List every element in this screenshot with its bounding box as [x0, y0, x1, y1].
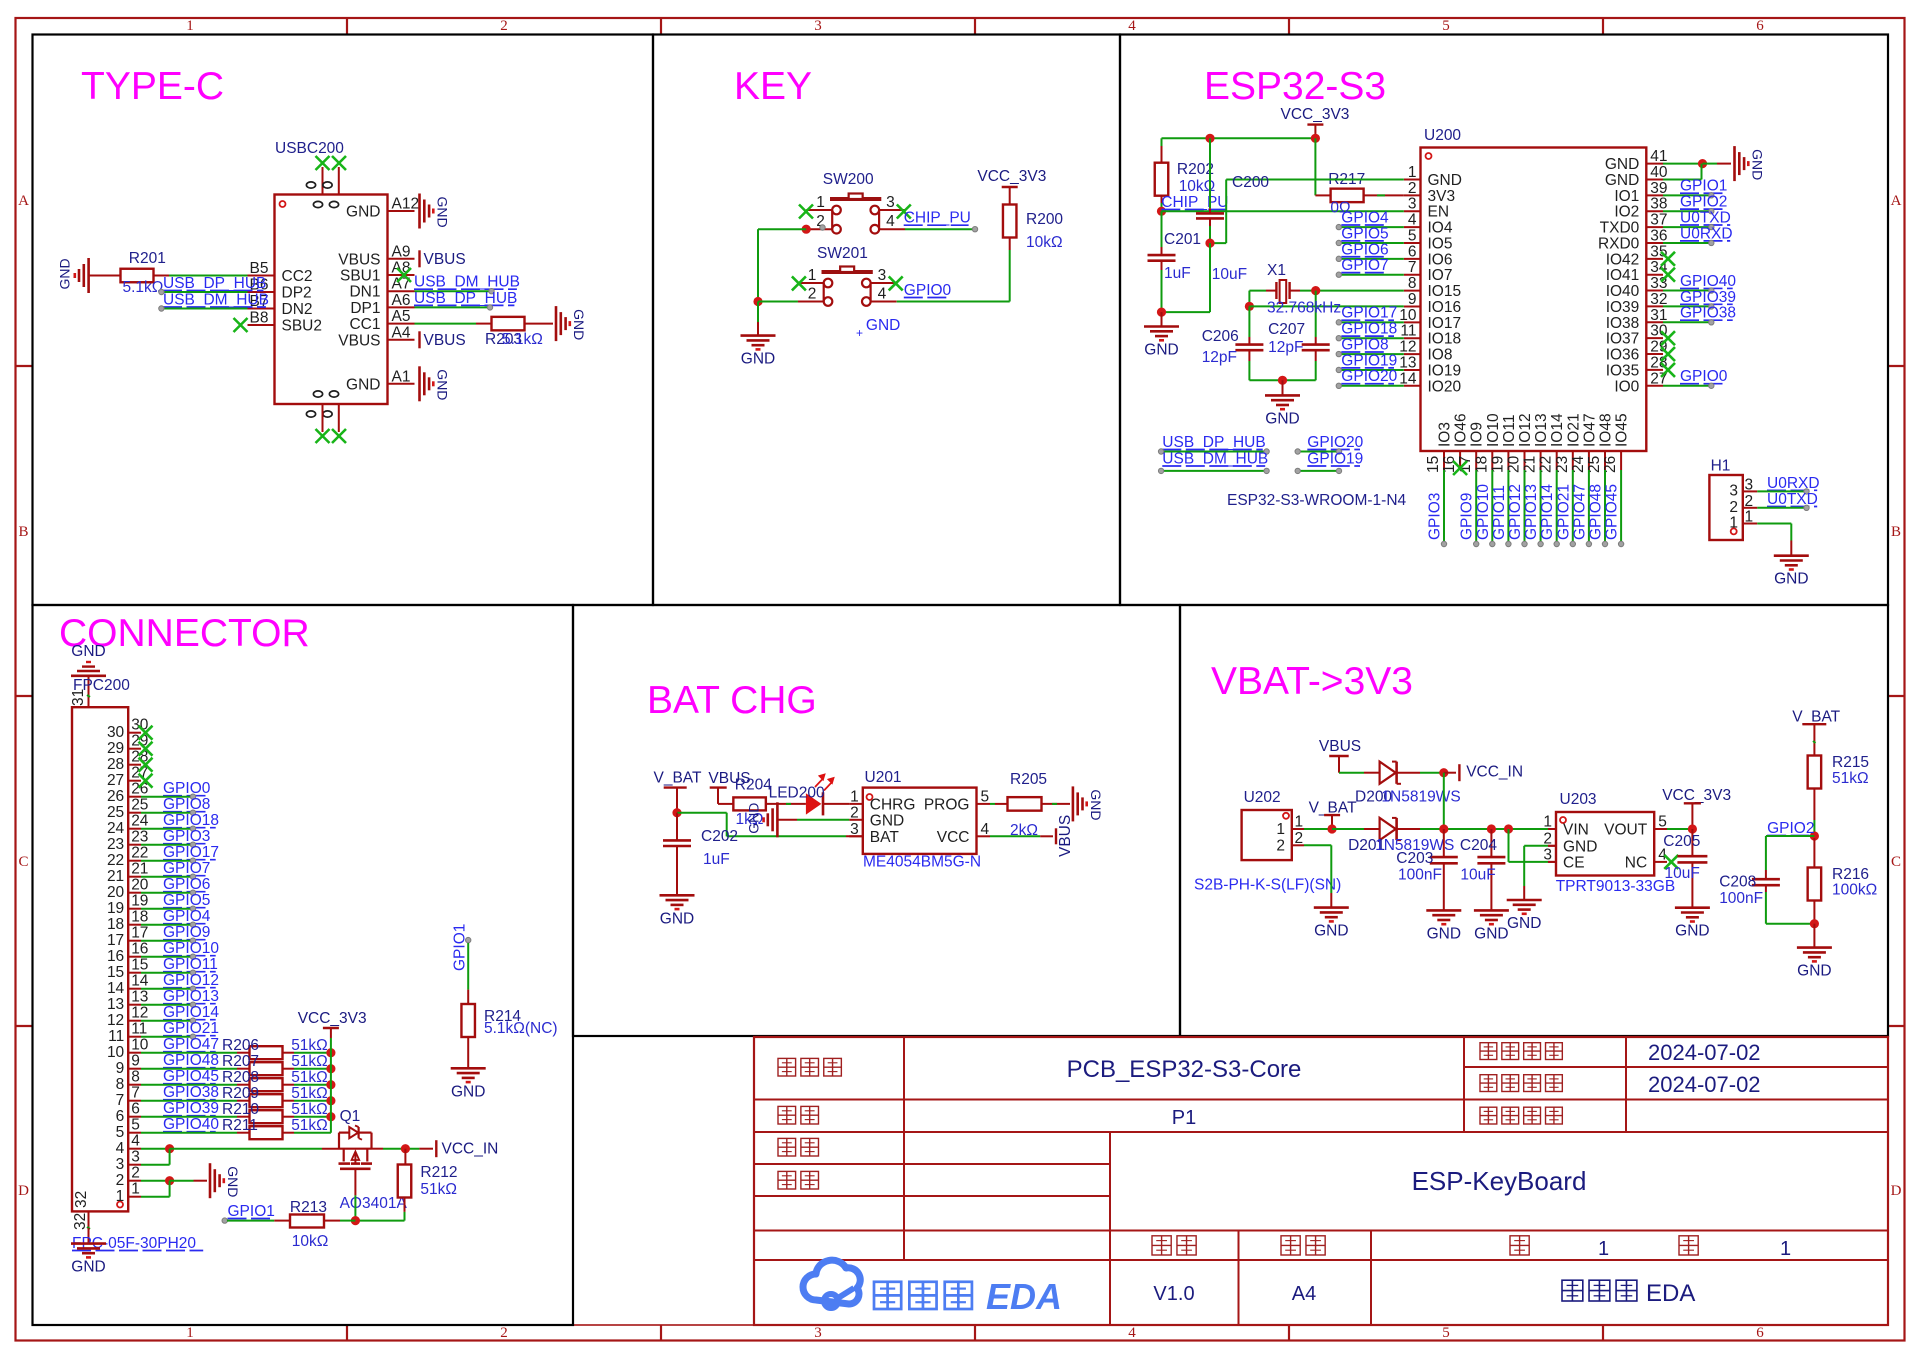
svg-text:GND: GND — [741, 351, 775, 368]
svg-text:51kΩ: 51kΩ — [291, 1085, 328, 1102]
svg-text:TYPE-C: TYPE-C — [81, 65, 224, 108]
wire GPIO47 to R206 — [141, 1052, 250, 1054]
part number ME4054BM5G-N — [863, 854, 981, 871]
svg-text:IO0: IO0 — [1614, 378, 1639, 395]
title block grid — [754, 1037, 1888, 1325]
label R200 — [1026, 211, 1063, 228]
svg-text:GPIO10: GPIO10 — [1475, 484, 1492, 540]
power flag VBUS vbat — [1319, 738, 1361, 773]
wire GPIO12 FPC — [141, 986, 196, 991]
wire pin4 to Q1 — [170, 1148, 322, 1150]
wire GPIO10 U200 pin18 — [1490, 470, 1495, 547]
value 10uF C204 — [1460, 867, 1495, 884]
label R212 — [420, 1164, 457, 1181]
wire GPIO19 esp — [1295, 468, 1342, 473]
svg-text:GPIO1: GPIO1 — [228, 1203, 275, 1220]
label C202 — [701, 828, 738, 845]
resistor R201 — [121, 269, 154, 283]
wire FPC pin31 to GND — [87, 676, 90, 707]
svg-text:9: 9 — [131, 1053, 140, 1070]
svg-text:3: 3 — [886, 194, 895, 211]
svg-text:GND: GND — [435, 197, 451, 228]
svg-text:R211: R211 — [222, 1117, 258, 1134]
label R214 — [484, 1008, 521, 1025]
ground GND at C204 — [1474, 910, 1509, 942]
ground GND at C205 — [1675, 908, 1710, 940]
svg-text:4: 4 — [981, 821, 990, 838]
IC U201 body — [863, 788, 977, 854]
svg-text:GPIO48: GPIO48 — [163, 1052, 219, 1069]
wire pin2 to pin1 — [141, 1181, 170, 1197]
wire GPIO21 U200 pin23 — [1570, 470, 1575, 547]
svg-text:GND: GND — [1428, 172, 1462, 189]
svg-text:51kΩ: 51kΩ — [291, 1053, 328, 1070]
wire GPIO1 to R214 — [466, 937, 471, 1004]
designator LED200 — [769, 785, 825, 802]
FPC200 pins — [107, 717, 149, 1205]
resistor R206 — [250, 1046, 283, 1059]
net label GPIO1 at R213 — [228, 1203, 275, 1220]
svg-text:51kΩ: 51kΩ — [291, 1101, 328, 1118]
svg-text:3: 3 — [116, 1156, 125, 1173]
wire GPIO1 pin39 — [1663, 193, 1714, 198]
svg-text:R215: R215 — [1832, 754, 1869, 771]
svg-text:1: 1 — [186, 1325, 194, 1341]
svg-text:31: 31 — [70, 689, 87, 706]
wire GPIO0 row — [897, 301, 1010, 303]
svg-text:C207: C207 — [1268, 321, 1305, 338]
svg-text:1: 1 — [1408, 164, 1417, 181]
svg-text:R205: R205 — [1010, 771, 1047, 788]
wire USB_DP_HUB — [159, 289, 248, 294]
svg-text:GND: GND — [1314, 923, 1348, 940]
svg-text:VBUS: VBUS — [1319, 738, 1361, 755]
svg-text:11: 11 — [1400, 323, 1416, 340]
net label GND small — [856, 317, 900, 340]
svg-text:U201: U201 — [865, 769, 902, 786]
designator Q1 — [340, 1108, 361, 1125]
wire FPC pin32 — [87, 1211, 90, 1243]
net label GPIO7 U200 pin7 — [1341, 257, 1388, 274]
wire GPIO38 pin31 — [1663, 320, 1714, 325]
capacitor C201 — [1148, 211, 1176, 312]
label D200 — [1355, 789, 1392, 806]
wire VOUT — [1667, 828, 1692, 830]
ground GND at C201 — [1144, 312, 1179, 358]
svg-text:51kΩ: 51kΩ — [1832, 770, 1869, 787]
connector H1 — [1709, 475, 1742, 540]
part number ESP32-S3-WROOM-1-N4 — [1227, 492, 1407, 509]
no-connect X U200 pin29 — [1661, 347, 1675, 361]
svg-text:12pF: 12pF — [1202, 349, 1237, 366]
part number S2B-PH-K-S — [1194, 877, 1341, 894]
wire GPIO8 — [1336, 351, 1404, 356]
value 2k R205 — [1010, 822, 1038, 839]
wire D200 to VCC_IN — [1397, 772, 1444, 774]
svg-text:VBUS: VBUS — [338, 251, 380, 268]
svg-text:CHRG: CHRG — [870, 796, 916, 813]
junction C203 — [1439, 824, 1448, 833]
svg-text:IO3: IO3 — [1437, 422, 1454, 447]
power flag VCC_IN connector — [419, 1140, 498, 1158]
wire GPIO21 FPC — [141, 1034, 196, 1039]
svg-text:SBU1: SBU1 — [340, 268, 381, 285]
svg-text:1: 1 — [808, 267, 817, 284]
svg-text:IO13: IO13 — [1533, 413, 1550, 447]
net label GPIO47 FPC pin10 — [163, 1036, 219, 1053]
svg-text:31: 31 — [1650, 307, 1667, 324]
wire FPC pin4 — [141, 1148, 170, 1150]
wire GPIO48 to R207 — [141, 1068, 250, 1070]
ground GND at R216 — [1797, 924, 1832, 980]
wire GND pin U203 — [1524, 846, 1556, 900]
svg-text:C205: C205 — [1663, 833, 1700, 850]
svg-text:GND: GND — [346, 376, 380, 393]
section box VBAT-3V3 — [1180, 605, 1888, 1036]
label C204 — [1460, 837, 1497, 854]
net label GPIO45 FPC pin8 — [163, 1068, 219, 1085]
svg-text:GPIO7: GPIO7 — [163, 860, 210, 877]
svg-text:5: 5 — [116, 1124, 125, 1141]
svg-text:LED200: LED200 — [769, 785, 825, 802]
wire GPIO18 FPC — [141, 826, 196, 831]
junction X1 right — [1311, 286, 1320, 295]
resistor R212 — [398, 1149, 412, 1212]
wire GPIO11 FPC — [141, 970, 196, 975]
svg-text:10: 10 — [131, 1037, 149, 1054]
svg-text:9: 9 — [116, 1060, 125, 1077]
H1 pins — [1729, 476, 1757, 531]
ground GND top FPC200 — [71, 643, 106, 676]
designator USBC200 — [275, 140, 344, 157]
label wuliaobianma — [1480, 1107, 1562, 1124]
svg-text:GND: GND — [71, 1259, 105, 1276]
svg-text:GPIO5: GPIO5 — [163, 892, 210, 909]
svg-text:12: 12 — [131, 1005, 148, 1022]
svg-text:IO21: IO21 — [1565, 413, 1582, 447]
svg-text:R206: R206 — [222, 1037, 259, 1054]
label huizhi — [778, 1138, 818, 1156]
wire GPIO0 pin27 — [1663, 383, 1714, 388]
wire R208 to bus — [283, 1084, 331, 1086]
power flag VCC_3V3 vbat — [1662, 787, 1731, 828]
svg-text:BAT CHG: BAT CHG — [647, 679, 817, 722]
svg-text:H1: H1 — [1711, 458, 1731, 475]
wire R209 to bus — [283, 1100, 331, 1102]
designator U201 — [865, 769, 902, 786]
svg-text:VCC_IN: VCC_IN — [1466, 764, 1523, 781]
net label GPIO11 bottom — [1491, 485, 1508, 540]
svg-text:26: 26 — [107, 788, 124, 805]
label chicun — [1281, 1236, 1325, 1255]
no-connect X U203 pin4 — [1664, 855, 1678, 869]
net label GPIO6 FPC pin20 — [163, 876, 210, 893]
designator U202 — [1244, 789, 1281, 806]
pin number 32 inside — [73, 1191, 90, 1208]
svg-text:USBC200: USBC200 — [275, 140, 344, 157]
svg-text:IO7: IO7 — [1428, 267, 1453, 284]
wire R213 to junction — [324, 1220, 355, 1222]
resistor R210 — [250, 1110, 283, 1123]
junction R216 bottom — [1810, 919, 1819, 928]
svg-text:14: 14 — [1399, 370, 1417, 387]
value 5.1k — [123, 279, 164, 296]
svg-text:ME4054BM5G-N: ME4054BM5G-N — [863, 854, 981, 871]
frame row letters — [18, 193, 1902, 1199]
label R205 — [1010, 771, 1047, 788]
svg-text:A6: A6 — [392, 292, 411, 309]
value 12pF C207 — [1268, 339, 1303, 356]
svg-text:A4: A4 — [1292, 1283, 1316, 1305]
net label USB_DP_HUB left — [163, 275, 266, 292]
net label USB_DM_HUB esp — [1162, 451, 1268, 468]
net label GPIO39 U200 pin32 — [1680, 289, 1736, 306]
junction bus pin7 — [326, 1096, 335, 1105]
svg-text:18: 18 — [131, 909, 148, 926]
svg-text:GPIO3: GPIO3 — [163, 828, 210, 845]
svg-text:4: 4 — [878, 286, 887, 303]
svg-text:USB_DP_HUB: USB_DP_HUB — [414, 290, 517, 307]
ground GND at U203 gnd — [1507, 900, 1542, 932]
label C207 — [1268, 321, 1305, 338]
svg-text:GPIO17: GPIO17 — [1341, 305, 1397, 322]
svg-text:18: 18 — [107, 916, 124, 933]
U200 right pins — [1598, 148, 1668, 395]
wire GPIO17 FPC — [141, 858, 196, 863]
svg-text:V_BAT: V_BAT — [1792, 709, 1840, 726]
svg-text:GND: GND — [1427, 925, 1461, 942]
wire A5 CC1 — [415, 323, 492, 325]
U202 pins — [1276, 814, 1304, 855]
svg-text:DP1: DP1 — [350, 300, 380, 317]
power flag VCC_IN vbat — [1444, 764, 1523, 782]
junction pin4 — [165, 1144, 174, 1153]
svg-text:GPIO11: GPIO11 — [163, 956, 218, 973]
svg-text:VCC: VCC — [937, 829, 970, 846]
svg-text:6: 6 — [1756, 1325, 1764, 1341]
value 1uF C202 — [703, 851, 730, 868]
svg-text:15: 15 — [131, 957, 148, 974]
svg-text:NC: NC — [1625, 854, 1647, 871]
wire GND to symbol — [1703, 163, 1732, 165]
svg-text:IO15: IO15 — [1428, 283, 1462, 300]
wire R206 to bus — [283, 1052, 331, 1054]
svg-text:32: 32 — [1650, 291, 1667, 308]
resistor R211 — [250, 1126, 283, 1139]
label R215 — [1832, 754, 1869, 771]
svg-text:25: 25 — [131, 797, 148, 814]
svg-text:5.1kΩ: 5.1kΩ — [123, 279, 164, 296]
svg-text:GND: GND — [571, 309, 587, 340]
svg-text:GPIO3: GPIO3 — [1427, 493, 1444, 540]
svg-text:IO4: IO4 — [1428, 220, 1453, 237]
svg-text:2: 2 — [1745, 493, 1754, 510]
svg-text:VCC_3V3: VCC_3V3 — [1281, 106, 1350, 123]
wire GPIO3 U200 pin15 — [1441, 470, 1446, 547]
wire GPIO4 — [1336, 224, 1404, 229]
section box BAT CHG — [573, 605, 1180, 1036]
net label GPIO18 FPC pin24 — [163, 812, 219, 829]
svg-text:10uF: 10uF — [1665, 865, 1700, 882]
resistor R209 — [250, 1094, 283, 1107]
svg-text:Q1: Q1 — [340, 1108, 361, 1125]
U200 bottom pins — [1425, 413, 1631, 473]
net label GPIO10 bottom — [1475, 484, 1492, 540]
svg-text:C200: C200 — [1232, 174, 1269, 191]
net label GPIO10 FPC pin16 — [163, 940, 219, 957]
resistor R213 — [290, 1215, 324, 1228]
wire pin2 to GND — [170, 1180, 207, 1182]
no-connect X FPC pin28 — [139, 758, 153, 772]
svg-text:GPIO19: GPIO19 — [1341, 352, 1397, 369]
svg-text:IO11: IO11 — [1501, 415, 1518, 447]
designator U200 — [1424, 127, 1461, 144]
power flag VBUS batchg — [708, 770, 750, 804]
svg-text:GPIO18: GPIO18 — [1341, 321, 1397, 338]
section box ESP32-S3 — [1120, 35, 1888, 606]
svg-text:GPIO2: GPIO2 — [1680, 194, 1727, 211]
svg-text:GND: GND — [746, 803, 762, 834]
svg-text:1: 1 — [1745, 509, 1754, 526]
svg-text:GND: GND — [1774, 571, 1808, 588]
no-connect X U200 pin35 — [1661, 252, 1675, 266]
value 1N5819WS D201 — [1375, 837, 1454, 854]
wire GPIO4 FPC — [141, 922, 196, 927]
value 51k R206 — [291, 1037, 328, 1054]
net label GPIO1 vertical — [452, 924, 469, 971]
no-connect X U200 pin28 — [1661, 363, 1675, 377]
svg-text:GPIO13: GPIO13 — [1523, 484, 1540, 540]
net label GPIO48 FPC pin9 — [163, 1052, 219, 1069]
svg-text:SW200: SW200 — [823, 171, 874, 188]
wire D201 to VIN — [1397, 828, 1556, 830]
net label U0RXD H1 — [1767, 475, 1820, 492]
wire R202 bottom — [1161, 195, 1163, 211]
svg-text:IO46: IO46 — [1453, 413, 1470, 447]
svg-text:5.1kΩ(NC): 5.1kΩ(NC) — [484, 1020, 558, 1037]
svg-text:7: 7 — [1408, 259, 1417, 276]
svg-text:3: 3 — [131, 1149, 140, 1166]
net label GPIO12 FPC pin14 — [163, 972, 219, 989]
wire A7 DN1 — [415, 289, 495, 294]
svg-text:SBU2: SBU2 — [282, 318, 323, 335]
svg-text:IO10: IO10 — [1485, 413, 1502, 447]
label R208 — [222, 1069, 259, 1086]
svg-text:51kΩ: 51kΩ — [291, 1037, 328, 1054]
svg-text:S2B-PH-K-S(LF)(SN): S2B-PH-K-S(LF)(SN) — [1194, 877, 1341, 894]
svg-text:IO2: IO2 — [1614, 204, 1639, 221]
wire LED to pin1 — [823, 803, 849, 805]
power flag V_BAT divider — [1792, 709, 1840, 740]
value 51k R209 — [291, 1085, 328, 1102]
svg-text:USB_DP_HUB: USB_DP_HUB — [163, 275, 266, 292]
designator U203 — [1560, 791, 1597, 808]
svg-text:B: B — [1891, 524, 1901, 540]
ground GND at A12 — [420, 194, 451, 229]
net label GPIO12 bottom — [1507, 484, 1524, 540]
wire pin8 IO15 — [1300, 290, 1404, 292]
svg-text:6: 6 — [131, 1101, 140, 1118]
resistor R200 — [1003, 205, 1017, 238]
wire KEY vertical — [757, 229, 759, 301]
svg-text:GPIO40: GPIO40 — [1680, 273, 1736, 290]
wire GPIO40 pin33 — [1663, 288, 1714, 293]
svg-text:10kΩ: 10kΩ — [1026, 234, 1063, 251]
svg-text:37: 37 — [1650, 212, 1667, 229]
wire VCC_IN to VBAT row — [1443, 773, 1445, 829]
capacitor C208 — [1752, 870, 1780, 892]
svg-text:VCC_IN: VCC_IN — [442, 1141, 499, 1158]
svg-text:GND: GND — [660, 910, 694, 927]
wire VCC pin4 — [990, 835, 1053, 837]
wire FPC pin2 — [141, 1180, 170, 1182]
svg-text:GPIO7: GPIO7 — [1341, 257, 1388, 274]
net label GPIO17 U200 pin10 — [1341, 305, 1397, 322]
svg-text:GPIO20: GPIO20 — [1341, 368, 1397, 385]
ground GND KEY — [741, 322, 776, 368]
label R201 — [129, 250, 166, 267]
svg-text:GPIO4: GPIO4 — [1341, 210, 1389, 227]
svg-text:GPIO19: GPIO19 — [1307, 451, 1363, 468]
wire CHIP_PU to EN — [1162, 210, 1404, 212]
svg-text:IO19: IO19 — [1428, 362, 1462, 379]
wire VBUS to D200 — [1339, 772, 1380, 774]
wire GPIO9 FPC — [141, 938, 196, 943]
svg-text:1: 1 — [116, 1188, 125, 1205]
svg-text:6: 6 — [1408, 243, 1417, 260]
capacitor C204 — [1477, 829, 1505, 910]
value 1k R204 — [736, 811, 764, 828]
crystal X1 — [1266, 280, 1300, 303]
svg-text:A5: A5 — [392, 308, 411, 325]
svg-text:D: D — [18, 1183, 29, 1199]
svg-text:5: 5 — [1658, 814, 1667, 831]
svg-text:PROG: PROG — [924, 796, 970, 813]
svg-text:GPIO0: GPIO0 — [1680, 368, 1728, 385]
svg-text:R210: R210 — [222, 1101, 259, 1118]
svg-text:1: 1 — [1295, 814, 1304, 831]
logo JLCEDA — [803, 1260, 1062, 1317]
net label USB_DM_HUB right — [414, 274, 520, 291]
ground GND at C202 — [660, 895, 695, 927]
wire GPIO8 FPC — [141, 810, 196, 815]
svg-text:IO37: IO37 — [1606, 331, 1640, 348]
svg-text:1: 1 — [850, 788, 859, 805]
field create date — [1648, 1072, 1761, 1097]
ground GND at R201 — [57, 258, 89, 293]
svg-text:36: 36 — [1650, 227, 1667, 244]
svg-text:51kΩ: 51kΩ — [420, 1181, 457, 1198]
svg-text:IO35: IO35 — [1606, 362, 1640, 379]
svg-text:GPIO39: GPIO39 — [1680, 289, 1736, 306]
value R214 — [484, 1020, 558, 1037]
wire GPIO39 to R210 — [141, 1116, 250, 1118]
designator SW201 — [817, 245, 868, 262]
wire GPIO20 esp — [1295, 449, 1342, 454]
svg-text:38: 38 — [1650, 196, 1667, 213]
wire U202 pin2 gnd — [1304, 845, 1331, 907]
svg-text:VCC_3V3: VCC_3V3 — [977, 168, 1046, 185]
junction C200 top — [1205, 134, 1214, 143]
svg-text:5.1kΩ: 5.1kΩ — [502, 331, 543, 348]
svg-text:1: 1 — [131, 1181, 140, 1198]
net label GPIO9 FPC pin17 — [163, 924, 210, 941]
switch SW201 — [798, 267, 897, 306]
svg-text:IO38: IO38 — [1606, 315, 1640, 332]
svg-text:GPIO14: GPIO14 — [1539, 484, 1556, 540]
wire GPIO17 — [1336, 320, 1404, 325]
label R217 — [1328, 171, 1365, 188]
